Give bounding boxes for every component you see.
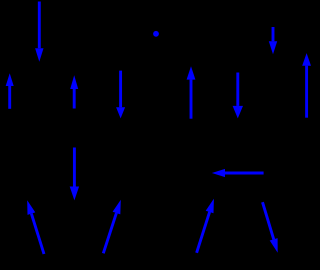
arrow A14 diagonal down-right xyxy=(263,202,278,253)
arrow A3 far-left up xyxy=(6,73,14,109)
node dot xyxy=(153,31,159,37)
arrow A7 down at x237 xyxy=(233,73,243,119)
arrow A2 top-right short down xyxy=(269,27,277,54)
arrow A12 diagonal up-right xyxy=(103,200,121,254)
arrow A1 top-left long down xyxy=(35,2,43,62)
arrow A9 middle down at x74 xyxy=(70,148,79,201)
arrow A11 diagonal up-left xyxy=(27,200,44,254)
arrow A10 horizontal left xyxy=(212,169,264,177)
arrow A8 far-right up xyxy=(302,53,311,118)
arrow A5 down at x120 xyxy=(116,71,125,119)
arrow A4 up at x74 xyxy=(70,75,78,108)
arrow A6 up at x191 xyxy=(187,66,196,118)
arrow A13 diagonal up-right bottom xyxy=(197,199,214,253)
